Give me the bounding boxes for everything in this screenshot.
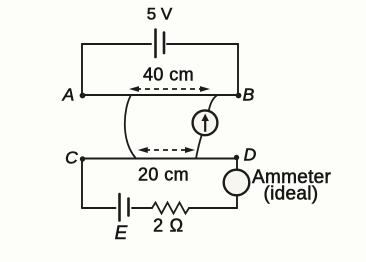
svg-text:E: E <box>115 223 128 244</box>
40 cm dashed double arrow <box>129 86 210 92</box>
svg-text:D: D <box>244 145 257 165</box>
wire top-left segment <box>82 43 151 45</box>
battery E short plate <box>127 199 130 216</box>
wire D to ammeter top <box>236 159 238 171</box>
battery E long plate <box>118 194 121 221</box>
svg-text:C: C <box>65 148 78 168</box>
resistor R 2ohm zigzag <box>152 203 189 214</box>
battery 5V long plate <box>154 30 157 58</box>
battery 5V short plate <box>163 33 166 54</box>
svg-text:20 cm: 20 cm <box>138 165 189 185</box>
wire jockey curve from AB wire down to CD wire <box>125 96 136 159</box>
svg-text:2 Ω: 2 Ω <box>153 216 184 236</box>
wire left vertical of top loop <box>81 44 83 95</box>
wire ammeter bottom vertical <box>236 196 238 209</box>
wire C to D <box>82 158 237 160</box>
svg-text:40 cm: 40 cm <box>143 65 194 85</box>
wire from galvanometer bottom to CD wire <box>196 135 202 159</box>
wire resistor to ammeter branch <box>189 207 237 209</box>
wire right vertical of top loop <box>237 44 239 95</box>
svg-text:5 V: 5 V <box>147 5 173 24</box>
galvanometer G circle <box>193 110 218 135</box>
svg-text:(ideal): (ideal) <box>264 184 319 205</box>
node D dot <box>234 155 239 160</box>
svg-text:B: B <box>243 85 255 105</box>
wire from AB wire to galvanometer top <box>209 95 218 111</box>
node C dot <box>80 156 85 161</box>
wire top-right segment <box>167 43 238 45</box>
wire A to B (potentiometer wire) <box>82 94 238 96</box>
galvanometer arrow (up) <box>202 114 209 132</box>
svg-text:A: A <box>62 85 75 105</box>
wire bottom-left segment <box>82 207 116 209</box>
wire battery E to resistor <box>132 207 152 209</box>
node A dot <box>80 93 86 99</box>
wire left vertical of bottom loop <box>81 159 83 209</box>
node B dot <box>236 93 242 99</box>
20 cm dashed double arrow <box>138 147 195 153</box>
ammeter circle <box>224 170 250 196</box>
